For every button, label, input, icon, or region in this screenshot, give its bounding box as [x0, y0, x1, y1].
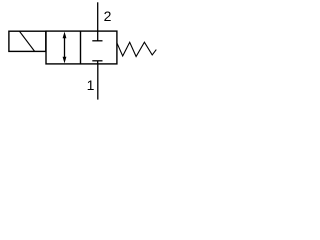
svg-text:1: 1 [87, 77, 95, 93]
svg-text:2: 2 [104, 8, 112, 24]
